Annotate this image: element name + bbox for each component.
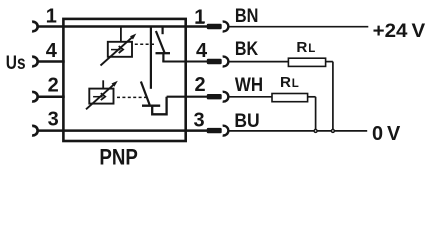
svg-text:BU: BU [234,111,259,132]
wire BN to +24V [229,26,368,28]
right connector pin 4 socket arc [223,57,229,67]
wire RL2 to corner [308,96,316,98]
right connector pin 4 male pin [207,59,222,64]
junction node BK/0V [331,129,334,132]
left socket contact pin 2 [32,92,38,102]
left pin 4 wire [38,60,65,63]
switch S1 fixed stub from rail [162,27,164,35]
svg-text:R: R [280,74,291,91]
left socket contact pin 1 [32,22,38,32]
svg-text:4: 4 [46,40,58,62]
svg-text:0 V: 0 V [372,123,401,145]
load resistor RL2 [272,94,308,102]
svg-text:L: L [292,78,299,90]
svg-text:PNP: PNP [99,145,137,170]
wire RL2 drop to 0V [315,97,317,130]
sensor element E1 adjustment arrow [101,37,134,66]
sensor housing box [63,19,185,141]
switch S1 seat bar [156,52,171,54]
wire RL1 to corner [326,61,333,63]
sensor element E2 body [89,89,113,104]
svg-text:R: R [296,39,307,56]
svg-text:2: 2 [195,74,206,96]
svg-text:Us: Us [6,53,26,74]
left socket contact pin 3 [32,126,38,136]
switch S2 seat bar [142,105,160,107]
svg-text:BN: BN [235,6,259,27]
feed wire from rail to switch S2 [150,27,152,89]
left pin 1 foot serif [47,21,56,23]
svg-text:1: 1 [194,7,205,29]
right connector pin 2 male pin [207,94,222,99]
right connector pin 3 male pin [207,128,222,133]
svg-text:3: 3 [193,109,204,131]
switch S1 lever [156,31,165,53]
switch S2 output wire to pin 2 [167,96,208,98]
actuation dashed link E1 to S1 [135,43,156,45]
wire WH to load [229,96,272,98]
sensor element E2 adjustment arrow [86,84,115,109]
svg-text:3: 3 [48,109,59,131]
right pin 1 foot serif [195,22,204,24]
svg-text:L: L [308,43,315,55]
svg-text:WH: WH [235,75,263,96]
svg-text:2: 2 [48,75,59,97]
svg-text:1: 1 [46,5,57,27]
switch S2 lever [141,82,150,105]
right connector pin 1 male pin [207,24,222,29]
wire BU 0V rail [229,130,367,132]
switch S2 output jog [152,97,166,115]
svg-text:4: 4 [196,40,208,62]
wire BK to load [229,61,289,63]
left socket contact pin 4 [32,57,38,67]
left pin 2 wire [38,95,65,98]
0V through wire pin3 left to right pin [38,129,208,132]
sensor element E2 internal arrow [93,96,103,98]
right connector pin 2 socket arc [223,92,229,102]
svg-text:+24 V: +24 V [373,20,426,42]
sensor element E1 internal arrow [111,49,121,51]
wire RL1 drop to 0V [332,62,334,130]
right connector pin 3 socket arc [223,126,229,136]
switch S1 output wire to pin 4 [162,60,208,62]
supply rail wire pin1 left to right pin [38,25,208,28]
sensor element E1 body [108,42,132,57]
junction node WH/0V [314,129,317,132]
switch S1 output stub [162,53,164,61]
svg-text:BK: BK [235,39,258,60]
actuation dashed link E2 to S2 [117,96,146,98]
sensor element E2 stub [102,80,104,88]
right connector pin 1 socket arc [223,22,229,32]
sensor element E1 stub to rail [120,27,122,42]
load resistor RL1 [288,58,325,66]
